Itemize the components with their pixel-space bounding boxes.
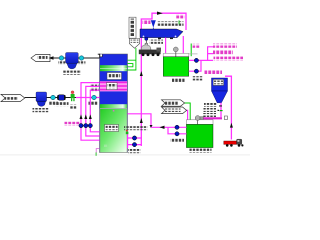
- booster fan: [66, 53, 79, 64]
- tank lid: [163, 53, 189, 56]
- underflow valve square: [224, 116, 227, 120]
- banner water lines: [184, 103, 190, 120]
- raw gas duct: [25, 97, 76, 99]
- bleed lines: [128, 133, 142, 148]
- water banner 2: [162, 107, 187, 114]
- agitator: [195, 116, 200, 121]
- valve V2: [79, 56, 84, 60]
- destination labels: [213, 44, 237, 48]
- belt filter text: [150, 40, 164, 44]
- absorber label box: [107, 73, 122, 80]
- water banner 1: [162, 100, 185, 106]
- branch to gypsum line: [128, 114, 151, 128]
- supply lines: [189, 47, 214, 71]
- tower inlet step: [100, 54, 103, 57]
- truck wheels: [226, 144, 229, 147]
- vacuum belt filter: [140, 29, 183, 38]
- drain to slurry tank: [165, 38, 167, 56]
- valve V1: [59, 56, 64, 60]
- filtrate outlet dot: [145, 37, 148, 40]
- discharge lines: [151, 127, 187, 134]
- operator figure: [71, 91, 74, 94]
- lime truck: [141, 45, 151, 50]
- powder feed funnel: [151, 20, 156, 27]
- underflow line: [220, 103, 222, 117]
- truck cab: [237, 139, 242, 144]
- flow arrow left: [49, 56, 54, 60]
- process water stub: [190, 44, 192, 57]
- tank lid: [186, 120, 213, 125]
- absorber tower body: [100, 54, 128, 153]
- spray header lines: [81, 83, 100, 141]
- riser pipe: [141, 13, 186, 146]
- vertical label box: [129, 17, 136, 38]
- pool label box: [105, 125, 119, 132]
- slurry label text: [90, 85, 99, 89]
- green tick: [178, 20, 181, 24]
- absorber spray band: [100, 81, 127, 91]
- frame texts: [143, 20, 151, 24]
- GGH heat exchanger: [36, 92, 47, 102]
- slurry tank body: [163, 57, 189, 76]
- flow arrows up: [80, 114, 83, 119]
- inlet banner: [1, 94, 25, 101]
- top arrow right: [157, 12, 163, 15]
- discharge pumps: [175, 125, 179, 129]
- wash water funnel: [129, 39, 139, 49]
- feed line: [225, 76, 231, 139]
- pH probe in tower: [104, 145, 107, 147]
- supply pumps: [194, 58, 198, 62]
- outlet banner: [31, 54, 50, 61]
- gypsum tank body: [186, 124, 213, 147]
- bleed pumps: [132, 136, 136, 140]
- valve V3: [51, 95, 56, 99]
- labels: [124, 126, 148, 130]
- flow arrow left: [160, 126, 165, 129]
- faint page bottom line: [0, 154, 250, 155]
- slurry feed line: [76, 97, 100, 99]
- flow arrow up: [230, 123, 233, 128]
- riser arrows: [140, 71, 143, 76]
- pH meter: [96, 149, 99, 153]
- spray label box: [107, 83, 118, 90]
- agitator: [173, 47, 178, 52]
- valve V4: [92, 95, 97, 99]
- bar end pump: [200, 117, 203, 120]
- hopper texts: [204, 103, 217, 107]
- truck bed: [224, 141, 237, 144]
- absorber slurry surface: [100, 104, 127, 108]
- wash water line: [128, 48, 136, 70]
- absorber demister band: [100, 65, 127, 68]
- absorber slurry pool: [100, 109, 127, 153]
- clean gas duct: [50, 57, 100, 59]
- recirculation pumps: [79, 124, 83, 128]
- instrument mark: [126, 130, 128, 132]
- feed pump: [58, 95, 66, 100]
- hydrocyclone body: [212, 78, 228, 91]
- pump label pink: [65, 122, 81, 126]
